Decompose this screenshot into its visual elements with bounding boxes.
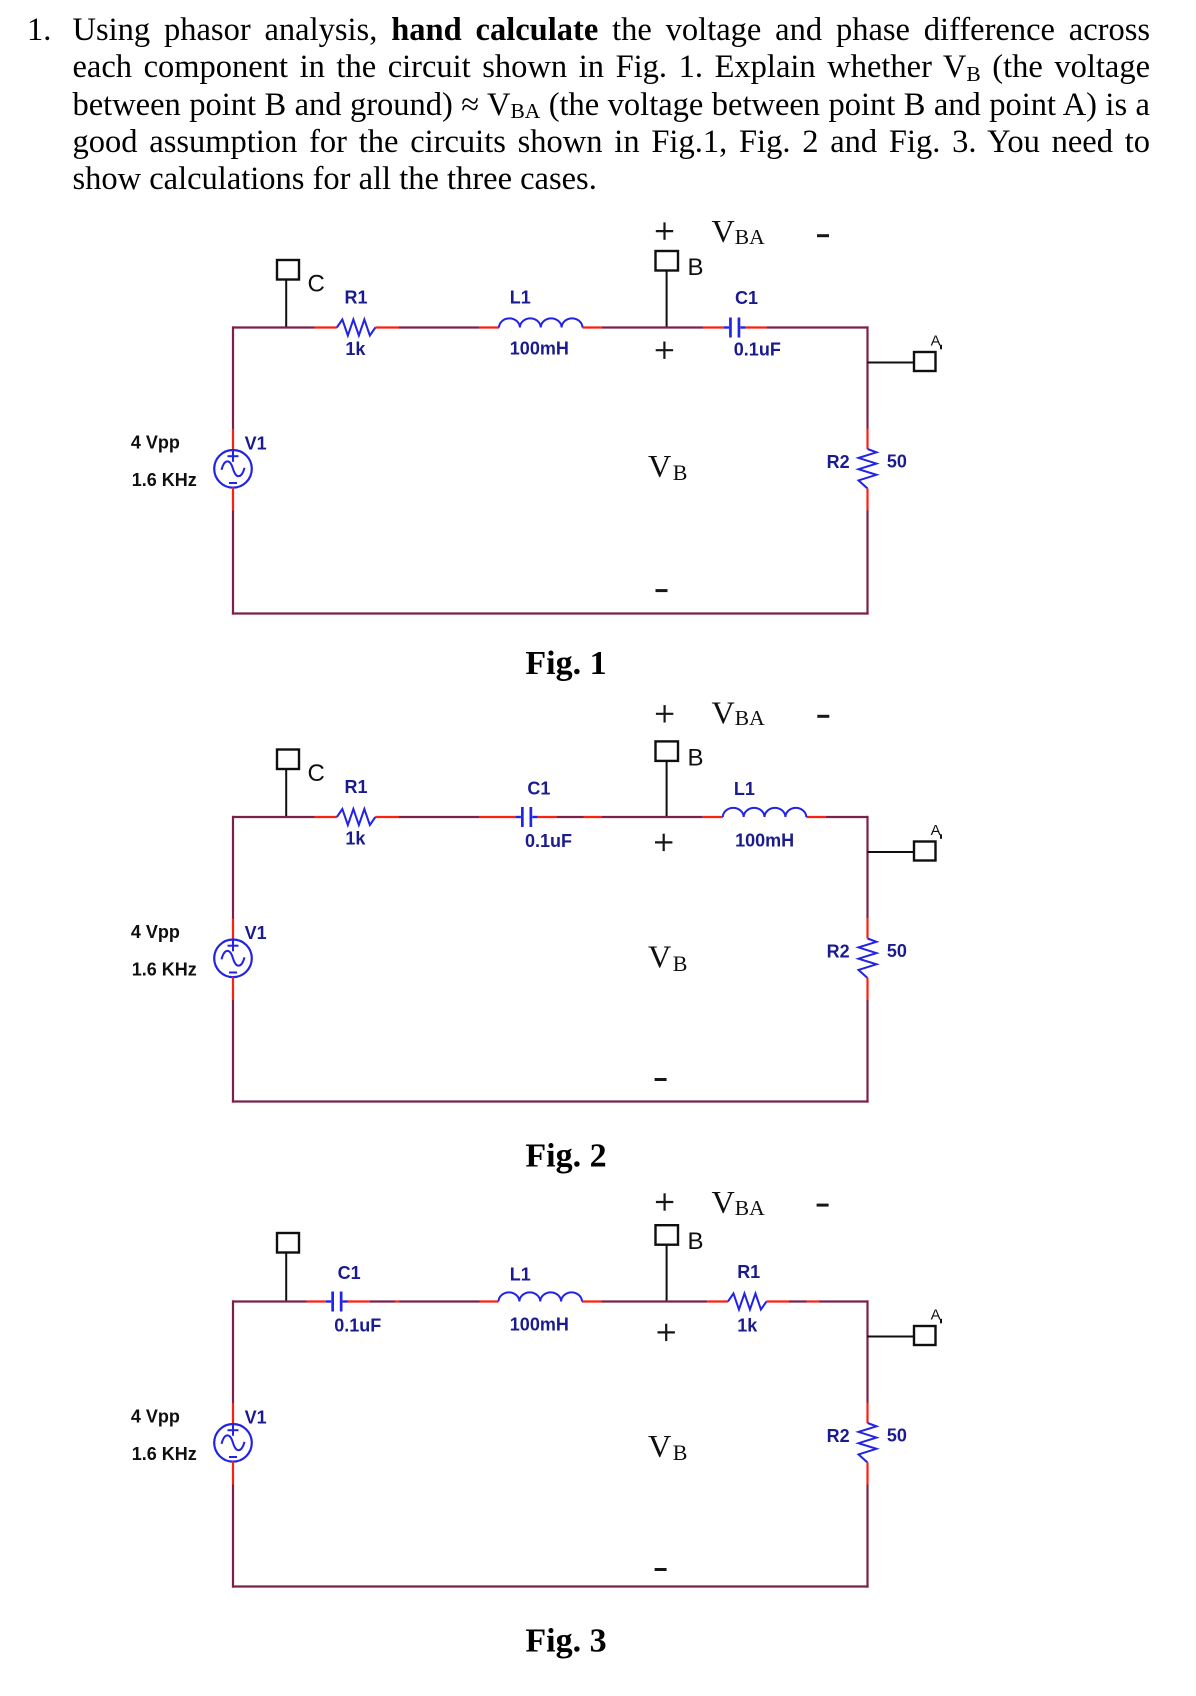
Fig2 plus sign of VBA — [656, 705, 673, 722]
plus sign of VB Fig3 — [658, 1324, 675, 1341]
svg-text:R2: R2 — [827, 1426, 850, 1446]
wire top segment 11 Fig2 — [806, 816, 826, 818]
svg-text:50: 50 — [887, 1426, 907, 1446]
label 4 Vpp Fig1 — [131, 432, 180, 452]
label 1.6 KHz Fig1 — [132, 470, 197, 490]
plus sign of VB Fig1 — [656, 342, 673, 359]
wire terminal C pin Fig3 — [285, 1253, 287, 1302]
wire node B pin Fig3 — [666, 1245, 668, 1302]
svg-text:Fig. 3: Fig. 3 — [525, 1623, 606, 1660]
R2 value label 50 Fig1 — [887, 452, 907, 472]
wire top segment 8 Fig2 — [584, 816, 603, 818]
wire top segment 8 Fig3 — [582, 1300, 602, 1302]
node B terminal square Fig1 — [656, 251, 679, 271]
wire top segment 14 Fig3 — [820, 1300, 869, 1302]
wire R2 top lead Fig3 — [866, 1403, 868, 1424]
L1 designator label Fig2 — [734, 779, 755, 799]
Fig1 label VBA — [712, 213, 766, 249]
label VB Fig3 — [648, 1428, 687, 1465]
node A terminal square Fig2 — [914, 842, 936, 861]
wire top segment 1 Fig2 — [232, 816, 315, 818]
svg-text:VB: VB — [648, 448, 687, 485]
V1 designator label Fig1 — [245, 433, 267, 453]
capacitor C1 Fig1 — [724, 318, 746, 338]
wire terminal C pin Fig2 — [285, 769, 287, 817]
terminal C label Fig2 — [308, 760, 325, 787]
wire top segment 11 Fig3 — [766, 1300, 789, 1302]
AC source V1 Fig2 — [214, 940, 252, 978]
node A terminal square Fig3 — [914, 1326, 936, 1345]
svg-text:100mH: 100mH — [510, 1315, 569, 1335]
R1 value label Fig1 — [345, 339, 366, 359]
plus sign of VB Fig2 — [655, 834, 672, 851]
wire right edge upper Fig3 — [866, 1300, 868, 1402]
svg-text:4 Vpp: 4 Vpp — [131, 922, 180, 942]
wire R2 bottom lead Fig2 — [866, 978, 868, 1000]
svg-text:0.1uF: 0.1uF — [525, 831, 572, 851]
svg-text:VBA: VBA — [712, 213, 766, 249]
wire top segment 6 Fig2 — [538, 816, 557, 818]
wire top segment 4 Fig1 — [399, 326, 479, 328]
minus sign of VB Fig2 — [655, 1078, 667, 1081]
caption Fig. 2 — [525, 1138, 606, 1175]
wire right edge upper Fig2 — [866, 816, 868, 918]
node B label Fig1 — [688, 254, 704, 281]
AC source V1 Fig1 — [214, 450, 252, 488]
svg-text:1k: 1k — [345, 829, 366, 849]
R2 value label 50 Fig3 — [887, 1426, 907, 1446]
C1 value label Fig1 — [734, 340, 781, 360]
svg-text:Fig. 1: Fig. 1 — [525, 645, 606, 682]
R1 value label Fig2 — [345, 829, 366, 849]
svg-text:1.6 KHz: 1.6 KHz — [132, 470, 197, 490]
wire top segment 9 Fig1 — [746, 326, 767, 328]
wire node B pin Fig2 — [666, 761, 668, 817]
Fig2 label VBA — [712, 694, 766, 730]
L1 designator label Fig3 — [510, 1265, 531, 1285]
wire bottom edge Fig2 — [232, 1100, 869, 1102]
resistor R1 Fig2 — [337, 809, 376, 825]
svg-text:Fig. 2: Fig. 2 — [525, 1138, 606, 1175]
Fig2 minus sign of VBA — [817, 715, 829, 718]
caption Fig. 3 — [525, 1623, 606, 1660]
C1 designator label Fig2 — [527, 779, 550, 799]
wire left edge upper Fig1 — [232, 326, 234, 429]
Fig1 plus sign of VBA — [656, 222, 673, 239]
label 4 Vpp Fig3 — [131, 1406, 180, 1426]
svg-text:V1: V1 — [245, 923, 267, 943]
Fig3 plus sign of VBA — [656, 1193, 673, 1210]
svg-text:B: B — [688, 744, 704, 771]
wire R2 bottom lead Fig1 — [866, 489, 868, 511]
wire top segment 1 Fig3 — [232, 1300, 307, 1302]
wire bottom edge Fig3 — [232, 1585, 869, 1587]
wire top segment 8 Fig1 — [704, 326, 724, 328]
svg-text:L1: L1 — [510, 288, 531, 308]
wire top segment 1 Fig1 — [232, 326, 315, 328]
inductor L1 Fig1 — [499, 318, 582, 327]
svg-text:50: 50 — [887, 941, 907, 961]
wire top segment 10 Fig2 — [703, 816, 723, 818]
resistor R2 Fig1 — [859, 449, 877, 489]
label 1.6 KHz Fig2 — [132, 960, 197, 980]
svg-text:C: C — [308, 760, 325, 787]
R2 designator label Fig1 — [827, 452, 850, 472]
wire top segment 12 Fig3 — [789, 1300, 807, 1302]
node B label Fig3 — [688, 1228, 704, 1255]
svg-text:L1: L1 — [734, 779, 755, 799]
R2 value label 50 Fig2 — [887, 941, 907, 961]
wire top segment 9 Fig3 — [602, 1300, 708, 1302]
L1 value label Fig3 — [510, 1315, 569, 1335]
svg-text:1.6 KHz: 1.6 KHz — [132, 1444, 197, 1464]
svg-text:VBA: VBA — [712, 694, 766, 730]
svg-text:R2: R2 — [827, 941, 850, 961]
wire right edge lower Fig1 — [866, 511, 868, 615]
svg-text:R1: R1 — [345, 777, 368, 797]
wire R2 bottom lead Fig3 — [866, 1463, 868, 1485]
node B terminal square Fig3 — [656, 1225, 679, 1245]
wire top segment 9 Fig2 — [602, 816, 703, 818]
svg-text:0.1uF: 0.1uF — [734, 340, 781, 360]
svg-text:B: B — [688, 254, 704, 281]
minus sign of VB Fig1 — [656, 589, 668, 592]
svg-text:VBA: VBA — [712, 1184, 766, 1220]
wire node A stub Fig1 — [868, 362, 915, 364]
node A label Fig3 — [931, 1306, 941, 1323]
R2 designator label Fig3 — [827, 1426, 850, 1446]
node A label tick Fig3 — [940, 1319, 942, 1324]
R1 designator label Fig1 — [345, 288, 368, 308]
svg-text:4 Vpp: 4 Vpp — [131, 432, 180, 452]
svg-text:R1: R1 — [345, 288, 368, 308]
resistor R2 Fig2 — [859, 939, 877, 979]
caption Fig. 1 — [525, 645, 606, 682]
svg-text:100mH: 100mH — [735, 831, 794, 851]
svg-text:1k: 1k — [737, 1316, 758, 1336]
wire top segment 10 Fig3 — [707, 1300, 728, 1302]
node A terminal square Fig1 — [914, 352, 936, 371]
svg-text:50: 50 — [887, 452, 907, 472]
AC source V1 Fig3 — [214, 1424, 252, 1462]
wire top segment 6 Fig1 — [583, 326, 602, 328]
wire right edge upper Fig1 — [866, 326, 868, 428]
terminal square C Fig2 — [277, 750, 299, 770]
wire V1 top lead Fig2 — [232, 919, 234, 940]
wire V1 bottom lead Fig3 — [232, 1461, 234, 1484]
wire left edge lower Fig2 — [232, 1000, 234, 1103]
minus sign of VB Fig3 — [655, 1568, 667, 1571]
svg-text:0.1uF: 0.1uF — [334, 1316, 381, 1336]
svg-text:A: A — [931, 1306, 941, 1323]
V1 designator label Fig3 — [245, 1407, 267, 1427]
svg-text:V1: V1 — [245, 1407, 267, 1427]
svg-text:VB: VB — [648, 1428, 687, 1465]
svg-text:R2: R2 — [827, 452, 850, 472]
svg-text:C1: C1 — [338, 1263, 361, 1283]
node B label Fig2 — [688, 744, 704, 771]
label VB Fig2 — [648, 939, 687, 976]
wire right edge lower Fig3 — [866, 1485, 868, 1588]
svg-text:100mH: 100mH — [510, 339, 569, 359]
wire top segment 4 Fig3 — [370, 1300, 396, 1302]
inductor L1 Fig3 — [499, 1292, 582, 1301]
C1 designator label Fig1 — [735, 288, 758, 308]
Fig3 minus sign of VBA — [817, 1204, 829, 1207]
wire V1 top lead Fig1 — [232, 429, 234, 450]
svg-text:C: C — [308, 271, 325, 298]
wire top segment 7 Fig1 — [602, 326, 704, 328]
wire node B pin Fig1 — [666, 271, 668, 328]
wire top segment 7 Fig2 — [557, 816, 584, 818]
wire top segment 12 Fig2 — [826, 816, 869, 818]
svg-text:1.6 KHz: 1.6 KHz — [132, 960, 197, 980]
C1 value label Fig2 — [525, 831, 572, 851]
wire top segment 5 Fig1 — [479, 326, 499, 328]
R1 value label Fig3 — [737, 1316, 758, 1336]
wire top segment 13 Fig3 — [807, 1300, 820, 1302]
Fig1 minus sign of VBA — [817, 234, 829, 237]
wire top segment 2 Fig1 — [315, 326, 337, 328]
wire top segment 6 Fig3 — [399, 1300, 479, 1302]
svg-text:VB: VB — [648, 939, 687, 976]
node B terminal square Fig2 — [656, 741, 679, 761]
wire V1 bottom lead Fig1 — [232, 487, 234, 510]
wire top segment 3 Fig1 — [375, 326, 399, 328]
wire top segment 10 Fig1 — [767, 326, 869, 328]
resistor R2 Fig3 — [859, 1423, 877, 1463]
svg-text:L1: L1 — [510, 1265, 531, 1285]
C1 designator label Fig3 — [338, 1263, 361, 1283]
svg-text:A: A — [931, 822, 941, 839]
wire right edge lower Fig2 — [866, 1000, 868, 1103]
wire node A stub Fig2 — [868, 851, 915, 853]
wire R2 top lead Fig1 — [866, 429, 868, 450]
wire top segment 5 Fig3 — [396, 1300, 399, 1302]
terminal square C Fig3 — [277, 1233, 299, 1253]
wire left edge lower Fig3 — [232, 1485, 234, 1588]
wire node A stub Fig3 — [868, 1336, 915, 1338]
R1 designator label Fig2 — [345, 777, 368, 797]
resistor R1 Fig1 — [337, 320, 376, 336]
node A label Fig2 — [931, 822, 941, 839]
wire top segment 4 Fig2 — [399, 816, 479, 818]
wire bottom edge Fig1 — [232, 612, 869, 614]
wire top segment 7 Fig3 — [480, 1300, 499, 1302]
label 4 Vpp Fig2 — [131, 922, 180, 942]
inductor L1 Fig2 — [723, 808, 806, 817]
C1 value label Fig3 — [334, 1316, 381, 1336]
wire V1 top lead Fig3 — [232, 1403, 234, 1424]
svg-text:A: A — [931, 332, 941, 349]
wire left edge lower Fig1 — [232, 511, 234, 615]
wire V1 bottom lead Fig2 — [232, 977, 234, 1000]
svg-text:B: B — [688, 1228, 704, 1255]
capacitor C1 Fig3 — [326, 1292, 348, 1312]
svg-text:4 Vpp: 4 Vpp — [131, 1406, 180, 1426]
resistor R1 Fig3 — [728, 1294, 767, 1310]
node A label tick Fig1 — [940, 345, 942, 350]
wire top segment 2 Fig2 — [315, 816, 337, 818]
wire left edge upper Fig3 — [232, 1300, 234, 1403]
V1 designator label Fig2 — [245, 923, 267, 943]
L1 value label Fig2 — [735, 831, 794, 851]
wire top segment 2 Fig3 — [307, 1300, 326, 1302]
L1 designator label Fig1 — [510, 288, 531, 308]
wire top segment 3 Fig2 — [375, 816, 399, 818]
problem statement paragraph — [27, 12, 1150, 198]
wire top segment 5 Fig2 — [479, 816, 516, 818]
svg-text:1k: 1k — [345, 339, 366, 359]
svg-text:C1: C1 — [527, 779, 550, 799]
svg-text:V1: V1 — [245, 433, 267, 453]
R2 designator label Fig2 — [827, 941, 850, 961]
label 1.6 KHz Fig3 — [132, 1444, 197, 1464]
svg-text:R1: R1 — [737, 1262, 760, 1282]
svg-text:C1: C1 — [735, 288, 758, 308]
terminal square C Fig1 — [277, 260, 299, 280]
R1 designator label Fig3 — [737, 1262, 760, 1282]
wire top segment 3 Fig3 — [348, 1300, 370, 1302]
terminal C label Fig1 — [308, 271, 325, 298]
wire terminal C pin Fig1 — [285, 280, 287, 328]
L1 value label Fig1 — [510, 339, 569, 359]
label VB Fig1 — [648, 448, 687, 485]
Fig3 label VBA — [712, 1184, 766, 1220]
capacitor C1 Fig2 — [516, 807, 538, 827]
node A label tick Fig2 — [940, 834, 942, 839]
wire R2 top lead Fig2 — [866, 918, 868, 939]
wire left edge upper Fig2 — [232, 816, 234, 919]
node A label Fig1 — [931, 332, 941, 349]
